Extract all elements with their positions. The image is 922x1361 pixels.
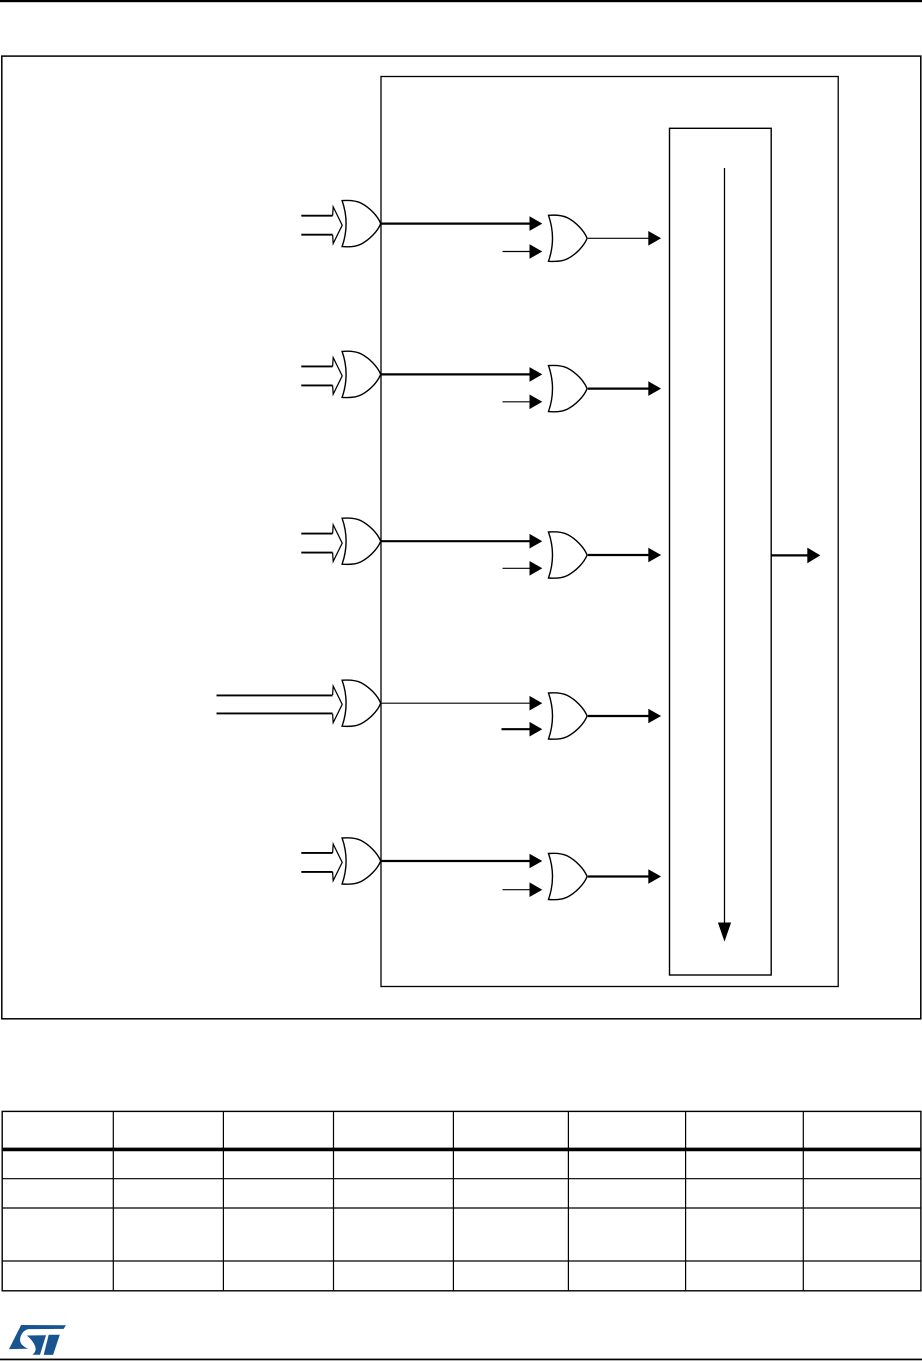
- arrowhead row3 output: [648, 548, 661, 563]
- wire row4 second input (thick): [502, 728, 531, 730]
- table row line 1: [2, 1178, 921, 1180]
- wire row4 gate to gate (thin): [381, 702, 530, 704]
- wire row1 gate to gate: [381, 223, 530, 225]
- table outer border: [2, 1111, 921, 1290]
- input bus arrow row4 (long): [217, 686, 343, 723]
- arrowhead row5 output: [648, 869, 661, 884]
- wire row2 output: [588, 388, 649, 390]
- or-gate row2 right: [549, 365, 588, 411]
- input bus arrow row1: [301, 207, 342, 244]
- edge detect block: [670, 128, 772, 975]
- input bus arrow row2: [301, 358, 342, 395]
- input bus arrow row5: [301, 844, 342, 881]
- arrowhead row1 upper input: [530, 216, 543, 231]
- table column line 7: [802, 1111, 804, 1290]
- table row line 2: [2, 1207, 921, 1209]
- or-gate row4 right: [549, 693, 588, 739]
- arrowhead row2 output: [648, 381, 661, 396]
- or-gate row5 left: [342, 838, 381, 884]
- arrowhead row2 upper input: [530, 367, 543, 382]
- table row line 3: [2, 1260, 921, 1262]
- table column line 5: [567, 1111, 569, 1290]
- wire: output to NVIC: [771, 554, 807, 556]
- or-gate row2 left: [342, 351, 381, 397]
- wire row3 gate to gate: [381, 540, 530, 542]
- logo S wing: [9, 1325, 66, 1349]
- wire row3 second input: [503, 567, 531, 569]
- table column line 6: [685, 1111, 687, 1290]
- page footer rule: [0, 1359, 922, 1361]
- block border: [381, 77, 838, 987]
- wire row4 output: [588, 715, 649, 717]
- arrowhead: internal bus down: [718, 923, 731, 942]
- wire row2 gate to gate: [381, 373, 530, 375]
- or-gate row3 left: [342, 518, 381, 564]
- wire row2 second input: [503, 401, 531, 403]
- wire: internal bus line: [724, 168, 726, 924]
- arrowhead row3 second input: [530, 561, 543, 576]
- arrowhead row5 upper input: [530, 854, 543, 869]
- table column line 4: [452, 1111, 454, 1290]
- figure frame: [2, 56, 921, 1019]
- logo S bottom: [27, 1335, 46, 1355]
- arrowhead: output to NVIC: [807, 548, 820, 564]
- arrowhead row4 output: [648, 709, 661, 724]
- logo T stem: [44, 1335, 60, 1355]
- or-gate row1 right: [549, 215, 588, 261]
- table column line 1: [112, 1111, 114, 1290]
- or-gate row1 left: [342, 200, 381, 246]
- page header rule: [0, 0, 922, 2]
- wire row1 second input: [503, 251, 531, 253]
- wire row5 second input: [503, 889, 531, 891]
- table header rule (thick): [2, 1148, 921, 1152]
- wire row1 output: [588, 237, 649, 239]
- or-gate row5 right: [549, 853, 588, 899]
- table column line 3: [333, 1111, 335, 1290]
- arrowhead row2 second input: [530, 395, 543, 410]
- arrowhead row1 second input: [530, 244, 543, 259]
- or-gate row3 right: [549, 532, 588, 578]
- or-gate row4 left: [342, 680, 381, 726]
- wire row5 output: [588, 875, 649, 877]
- input bus arrow row3: [301, 525, 342, 562]
- arrowhead row4 upper input: [530, 696, 543, 711]
- arrowhead row3 upper input: [530, 534, 543, 549]
- arrowhead row1 output: [648, 231, 661, 246]
- arrowhead row4 second input: [530, 722, 543, 737]
- wire row5 gate to gate: [381, 860, 530, 862]
- ST logo: [9, 1325, 66, 1355]
- wire row3 output: [588, 554, 649, 556]
- arrowhead row5 second input: [530, 882, 543, 897]
- table column line 2: [222, 1111, 224, 1290]
